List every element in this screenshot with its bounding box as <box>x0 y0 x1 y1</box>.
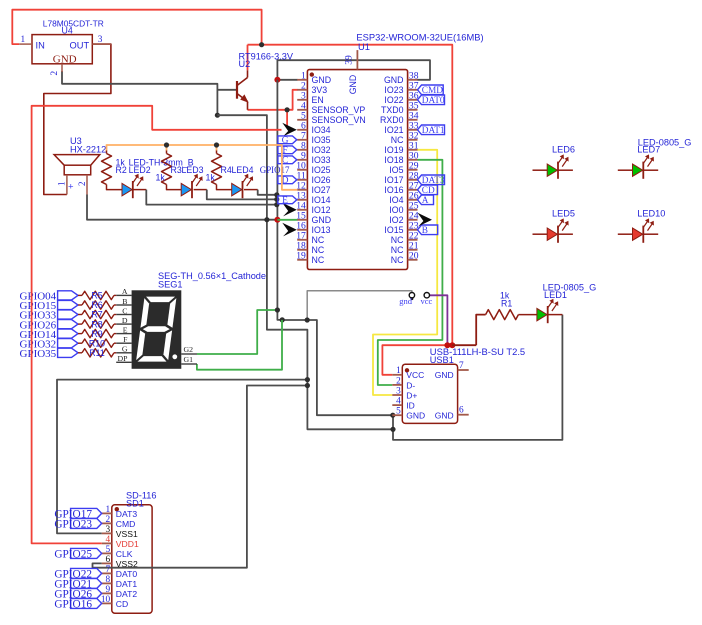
svg-text:3: 3 <box>98 35 103 45</box>
wire GND bus V1 down left side of chip <box>217 115 393 429</box>
SD1 pin 10 CD <box>102 602 112 604</box>
USB1 pin 2 D- <box>392 384 402 386</box>
SD1 pin 6 VSS2 <box>102 562 112 564</box>
net port arrow at pin 24 IO2 <box>418 213 433 227</box>
segment pin C stub <box>116 314 131 316</box>
net port arrow at pin 16 IO13 <box>282 223 297 237</box>
svg-text:SENSOR_VN: SENSOR_VN <box>312 115 366 125</box>
svg-text:SEG1: SEG1 <box>158 280 183 290</box>
SD1 pin 3 VSS1 <box>102 532 112 534</box>
SD1 pin 2 CMD <box>102 522 112 524</box>
svg-text:3V3: 3V3 <box>312 85 328 95</box>
svg-text:OUT: OUT <box>70 41 90 51</box>
svg-text:3: 3 <box>396 386 401 396</box>
svg-text:GND: GND <box>384 75 404 85</box>
resistor R11 <box>78 352 82 354</box>
ESP32 pin 7 IO35 <box>297 139 307 141</box>
resistor R2 1k <box>106 150 108 154</box>
svg-text:R7: R7 <box>91 310 102 320</box>
svg-text:R9: R9 <box>91 329 102 339</box>
ESP32 pin 33 IO21 <box>408 129 418 131</box>
net flag E at ESP32 pin 13 <box>278 196 297 204</box>
svg-text:NC: NC <box>391 135 404 145</box>
ESP32 pin 14 IO12 <box>297 209 307 211</box>
svg-text:G: G <box>122 345 128 354</box>
svg-text:C: C <box>122 306 127 315</box>
svg-text:VDD1: VDD1 <box>116 539 139 549</box>
svg-text:IO14: IO14 <box>312 195 331 205</box>
ESP32 pin 37 IO23 <box>408 89 418 91</box>
svg-text:IN: IN <box>36 41 45 51</box>
svg-text:R6: R6 <box>91 300 102 310</box>
svg-text:A: A <box>422 196 429 206</box>
svg-text:D-: D- <box>406 380 415 390</box>
USB1 pin 7 GND <box>458 369 469 371</box>
USB1 pin 4 ID <box>392 404 402 406</box>
net flag C at ESP32 pin 9 <box>278 156 297 164</box>
svg-text:5: 5 <box>106 545 111 555</box>
svg-text:F: F <box>123 335 128 344</box>
svg-text:DAT3: DAT3 <box>116 509 138 519</box>
wire U4 GND down to base and GND bus <box>62 71 217 115</box>
segment pin D stub <box>116 323 131 325</box>
svg-text:IO18: IO18 <box>384 155 403 165</box>
led LED4 LED-TH-3mm_B <box>232 183 242 195</box>
svg-text:USB1: USB1 <box>430 355 454 365</box>
svg-text:B: B <box>422 226 428 236</box>
resistor R9 <box>78 333 82 335</box>
segment pin G1 stub <box>181 363 197 365</box>
svg-text:4: 4 <box>396 397 401 407</box>
net flag B at ESP32 pin 23 <box>418 225 438 235</box>
svg-text:1k: 1k <box>156 173 166 183</box>
svg-text:GND: GND <box>348 75 358 95</box>
svg-text:GND: GND <box>406 411 425 421</box>
wire base tap <box>217 89 236 91</box>
ESP32 pin 15 GND <box>297 219 307 221</box>
ESP32 pin 21 NC <box>408 249 418 251</box>
ESP32 pin 17 NC <box>297 239 307 241</box>
ESP32 pin 4 SENSOR_VP <box>297 109 307 111</box>
svg-text:LED3: LED3 <box>182 165 204 175</box>
ESP32 pin 29 IO5 <box>408 169 418 171</box>
svg-text:E: E <box>123 325 128 334</box>
ESP32 pin 19 NC <box>297 259 307 261</box>
svg-text:IO35: IO35 <box>312 135 331 145</box>
speaker pin 1 <box>66 175 68 195</box>
ESP32 pin 20 NC <box>408 259 418 261</box>
svg-text:IO5: IO5 <box>389 165 403 175</box>
svg-text:SENSOR_VP: SENSOR_VP <box>312 105 366 115</box>
wire yellow IO19 to USB D+ <box>373 150 437 395</box>
wire VDD: SD VDD1 up and over to IO34 port <box>32 106 282 544</box>
led LED6 <box>533 169 548 171</box>
svg-text:LED10: LED10 <box>637 209 665 219</box>
svg-text:LED1: LED1 <box>544 290 567 300</box>
ESP32 pin 31 IO19 <box>408 149 418 151</box>
svg-text:1: 1 <box>20 35 25 45</box>
ESP32 pin 30 IO18 <box>408 159 418 161</box>
net flag A at ESP32 pin 26 <box>418 195 434 205</box>
svg-text:SD1: SD1 <box>126 499 144 509</box>
ESP32 pin 25 IO0 <box>408 209 418 211</box>
net flag GPIO17 at SD1 pin 1 <box>71 508 102 518</box>
net flag GPIO23 at SD1 pin 2 <box>71 518 102 528</box>
svg-text:IO33: IO33 <box>312 155 331 165</box>
svg-text:6: 6 <box>459 406 464 416</box>
USB1 pin 1 VCC <box>392 374 402 376</box>
net flag D at ESP32 pin 11 <box>278 176 297 184</box>
SD1 pin 1 DAT3 <box>102 512 112 514</box>
net flag F at ESP32 pin 8 <box>278 146 297 154</box>
ESP32 pin 36 IO22 <box>408 99 418 101</box>
svg-text:DAT0: DAT0 <box>116 569 138 579</box>
svg-text:U2: U2 <box>239 59 251 69</box>
ESP32 pin 10 IO25 <box>297 169 307 171</box>
svg-text:DAT1: DAT1 <box>422 126 445 136</box>
svg-text:R10: R10 <box>89 338 105 348</box>
wire 5V to transistor collector <box>247 45 249 71</box>
ESP32 pin 5 SENSOR_VN <box>297 119 307 121</box>
svg-text:CLK: CLK <box>116 549 133 559</box>
ESP32 pin 16 IO13 <box>297 229 307 231</box>
svg-text:IO13: IO13 <box>312 225 331 235</box>
segment pin G2 stub <box>181 353 197 355</box>
svg-text:IO0: IO0 <box>389 205 403 215</box>
led LED2 LED-TH-3mm_B <box>122 183 132 195</box>
svg-text:39: 39 <box>344 55 355 65</box>
svg-text:DP: DP <box>118 354 129 363</box>
resistor R1 1k <box>486 310 519 320</box>
U4 pin 3 stub <box>92 43 111 45</box>
svg-text:2: 2 <box>50 71 60 76</box>
segment pin F stub <box>116 342 131 344</box>
wire LED2 cathode to GND bus <box>133 189 146 191</box>
net flag DAT1 at ESP32 pin 33 <box>418 125 445 135</box>
ESP32 pin 27 IO16 <box>408 189 418 191</box>
svg-text:IO21: IO21 <box>384 125 403 135</box>
svg-text:GND: GND <box>312 75 332 85</box>
wire gnd testpoint <box>307 291 412 320</box>
svg-text:NC: NC <box>312 245 325 255</box>
svg-text:R2: R2 <box>116 165 127 175</box>
led LED7 <box>618 169 633 171</box>
U4 pin 2 stub <box>61 64 63 72</box>
svg-text:L78M05CDT-TR: L78M05CDT-TR <box>43 18 104 28</box>
ESP32 pin 26 IO4 <box>408 199 418 201</box>
ESP32 pin 32 NC <box>408 139 418 141</box>
svg-text:IO34: IO34 <box>312 125 331 135</box>
svg-text:19: 19 <box>296 250 306 261</box>
svg-text:R1: R1 <box>501 299 512 309</box>
svg-text:R4: R4 <box>221 165 232 175</box>
svg-text:HX-2212: HX-2212 <box>70 145 106 155</box>
ESP32 pin 35 TXD0 <box>408 109 418 111</box>
svg-text:D+: D+ <box>406 390 417 400</box>
SD1 pin 8 DAT1 <box>102 582 112 584</box>
SD1 pin 9 DAT2 <box>102 592 112 594</box>
svg-text:ID: ID <box>406 401 415 411</box>
svg-text:IO4: IO4 <box>389 195 403 205</box>
svg-text:IO17: IO17 <box>384 175 403 185</box>
svg-text:LED4: LED4 <box>232 165 254 175</box>
ESP32 pin 18 NC <box>297 249 307 251</box>
svg-text:7: 7 <box>106 565 111 575</box>
svg-text:IO12: IO12 <box>312 205 331 215</box>
junctions at USB VCC <box>444 342 450 348</box>
svg-text:2: 2 <box>396 376 401 386</box>
svg-text:NC: NC <box>391 245 404 255</box>
USB1 pin 3 D+ <box>392 394 402 396</box>
svg-text:DAT1: DAT1 <box>116 579 138 589</box>
USB1 pin 5 GND <box>392 414 402 416</box>
svg-text:R11: R11 <box>89 348 105 358</box>
svg-text:4: 4 <box>106 535 111 545</box>
svg-text:D: D <box>122 316 128 325</box>
resistor R10 <box>78 342 82 344</box>
net flag G at ESP32 pin 7 <box>278 136 297 144</box>
svg-text:1k: 1k <box>206 173 216 183</box>
svg-text:1: 1 <box>57 182 67 187</box>
svg-text:GPIO16: GPIO16 <box>54 599 92 611</box>
svg-text:8: 8 <box>106 575 111 585</box>
net flag GPIO25 at SD1 pin 5 <box>71 548 102 558</box>
svg-text:E: E <box>282 196 288 206</box>
ESP32 pin 38 GND <box>408 79 418 81</box>
wire ESP32 pin1 GND loop over top to pin38 <box>277 79 297 81</box>
svg-text:NC: NC <box>391 235 404 245</box>
led LED10 <box>618 233 633 235</box>
svg-text:+: + <box>68 181 74 192</box>
ESP32 pin 22 NC <box>408 239 418 241</box>
ESP32 body <box>307 70 407 270</box>
svg-text:EN: EN <box>312 95 324 105</box>
net port arrow at pin 14 IO12 <box>282 203 297 217</box>
SD1 pin 7 DAT0 <box>102 572 112 574</box>
svg-text:vcc: vcc <box>421 296 433 306</box>
ESP32 pin 24 IO2 <box>408 219 418 221</box>
svg-text:7: 7 <box>459 361 464 371</box>
svg-text:U4: U4 <box>62 25 73 35</box>
svg-text:G1: G1 <box>184 355 194 364</box>
net flag GPIO26 at SD1 pin 9 <box>71 588 102 598</box>
testpoint gnd <box>409 293 414 298</box>
svg-text:RXD0: RXD0 <box>380 115 404 125</box>
svg-text:gnd: gnd <box>399 296 413 306</box>
speaker body <box>54 155 100 166</box>
segment pin E stub <box>116 333 131 335</box>
svg-text:R5: R5 <box>91 291 102 301</box>
wire USB VCC pin1 <box>382 345 452 375</box>
USB1 pin 6 GND <box>458 414 469 416</box>
ESP32 pin 12 IO27 <box>297 189 307 191</box>
segment pin A stub <box>116 294 131 296</box>
svg-text:IO19: IO19 <box>384 145 403 155</box>
svg-text:IO15: IO15 <box>384 225 403 235</box>
resistor R3 1k <box>166 150 168 154</box>
wire green GND stub to ESP32 pin15 <box>277 219 297 221</box>
svg-text:LED2: LED2 <box>129 165 151 175</box>
svg-text:20: 20 <box>409 250 419 261</box>
svg-text:GPIO17: GPIO17 <box>260 165 290 175</box>
svg-text:NC: NC <box>391 255 404 265</box>
ESP32 pin 11 IO26 <box>297 179 307 181</box>
net flag GPIO16 at SD1 pin 10 <box>71 598 102 608</box>
svg-text:IO2: IO2 <box>389 215 403 225</box>
led LED3 LED-TH-3mm_B <box>181 183 191 195</box>
svg-text:G2: G2 <box>184 345 194 354</box>
svg-text:GND: GND <box>312 215 332 225</box>
svg-text:IO23: IO23 <box>384 85 403 95</box>
svg-text:2: 2 <box>106 515 111 525</box>
resistor R8 <box>78 323 82 325</box>
wire GND bus V2 down from pin1 <box>277 80 282 320</box>
svg-text:NC: NC <box>312 235 325 245</box>
svg-text:1: 1 <box>396 366 401 376</box>
svg-text:1: 1 <box>106 505 111 515</box>
svg-text:VCC: VCC <box>406 370 424 380</box>
ESP32 pin 23 IO15 <box>408 229 418 231</box>
wire G1 green to GND bus <box>197 320 282 370</box>
wire speaker negative to GND <box>87 195 277 220</box>
wire green IO18 to USB D- <box>378 160 443 385</box>
segment pin B stub <box>116 304 131 306</box>
svg-text:5: 5 <box>396 407 401 417</box>
wire R1 feed <box>452 344 476 346</box>
svg-text:GPIO25: GPIO25 <box>54 549 92 561</box>
ESP32 pin 6 IO34 <box>297 129 307 131</box>
speaker pin 2 <box>86 175 88 195</box>
svg-text:DAT0: DAT0 <box>422 96 445 106</box>
svg-text:CD: CD <box>116 599 128 609</box>
resistor R4 1k <box>216 150 218 154</box>
seven segment digit <box>136 297 177 362</box>
segment pin G stub <box>116 352 131 354</box>
net flag CD at ESP32 pin 27 <box>418 185 438 195</box>
wire GND horizontal y320 to USB pin5 <box>282 320 392 415</box>
resistor R7 <box>78 314 82 316</box>
svg-text:A: A <box>122 287 128 296</box>
wire LED3 cathode to GND bus <box>194 189 207 191</box>
ESP32 pin 13 IO14 <box>297 199 307 201</box>
testpoint vcc <box>424 293 429 298</box>
svg-text:ESP32-WROOM-32UE(16MB): ESP32-WROOM-32UE(16MB) <box>356 33 483 43</box>
wire GND to LED1 cathode <box>393 315 562 440</box>
svg-text:DAT2: DAT2 <box>116 589 138 599</box>
net flag GPIO22 at SD1 pin 7 <box>71 568 102 578</box>
svg-text:IO22: IO22 <box>384 95 403 105</box>
wire 3V3 emitter to ESP32 pin2 <box>248 90 298 110</box>
wire 5V horizontal rail to USB VCC vertical <box>248 45 453 346</box>
ESP32 pin 8 IO32 <box>297 149 307 151</box>
svg-text:VSS2: VSS2 <box>116 559 138 569</box>
U4 pin 1 stub <box>19 43 32 45</box>
segment pin DP stub <box>116 361 131 363</box>
ESP32 pin 9 IO33 <box>297 159 307 161</box>
wire G2 green to GND bus <box>197 310 277 354</box>
svg-text:6: 6 <box>106 555 111 565</box>
U4 body <box>32 35 92 64</box>
svg-text:U1: U1 <box>358 42 370 52</box>
ESP32 pin 39 GND top <box>356 50 358 70</box>
svg-text:IO32: IO32 <box>312 145 331 155</box>
wire orange LED supply to ESP32 pin12 IO27 <box>107 145 298 190</box>
svg-text:9: 9 <box>106 585 111 595</box>
wire 3V3 branch down to IO34 port <box>286 110 288 127</box>
net flag CMD at ESP32 pin 37 <box>418 85 444 95</box>
svg-text:TXD0: TXD0 <box>381 105 404 115</box>
junction on 5V rail <box>259 42 264 47</box>
net flag GPIO21 at SD1 pin 8 <box>71 578 102 588</box>
svg-text:IO26: IO26 <box>312 175 331 185</box>
ESP32 pin 1 GND <box>297 79 307 81</box>
net flag DAT0 at ESP32 pin 36 <box>418 95 445 105</box>
svg-text:3: 3 <box>106 525 111 535</box>
svg-text:GPIO35: GPIO35 <box>20 348 57 360</box>
svg-text:IO27: IO27 <box>312 185 331 195</box>
resistor R5 <box>78 294 82 296</box>
wire VSS2 to GND bus <box>93 386 308 568</box>
led LED5 <box>533 233 548 235</box>
wire LED4 cathode to GND bus <box>244 189 258 191</box>
svg-text:LED7: LED7 <box>637 145 660 155</box>
svg-text:CMD: CMD <box>116 519 136 529</box>
led LED1 LED-0805_G <box>537 308 547 320</box>
svg-text:IO16: IO16 <box>384 185 403 195</box>
svg-text:GND: GND <box>53 53 77 65</box>
svg-text:R8: R8 <box>91 319 102 329</box>
junction red at pin1 <box>274 77 280 83</box>
svg-text:B: B <box>122 297 127 306</box>
ESP32 pin 34 RXD0 <box>408 119 418 121</box>
svg-text:VSS1: VSS1 <box>116 529 138 539</box>
USB1 body <box>402 364 457 423</box>
svg-text:NC: NC <box>312 255 325 265</box>
ESP32 pin 2 3V3 <box>297 89 307 91</box>
resistor R6 <box>78 304 82 306</box>
svg-text:R3: R3 <box>171 165 182 175</box>
SD1 pin 5 CLK <box>102 552 112 554</box>
SD1 body <box>112 505 152 613</box>
ESP32 pin 3 EN <box>297 99 307 101</box>
svg-text:LED5: LED5 <box>552 209 575 219</box>
svg-text:GPIO23: GPIO23 <box>54 519 92 531</box>
wire 5V net: U4 IN from top rail <box>12 10 261 45</box>
junction base/GND <box>215 113 220 118</box>
svg-text:F: F <box>282 146 287 156</box>
net flag DAT3 at ESP32 pin 28 <box>418 175 445 185</box>
svg-text:IO25: IO25 <box>312 165 331 175</box>
svg-text:GND: GND <box>435 411 454 421</box>
svg-text:2: 2 <box>77 182 87 187</box>
wire U4 OUT 5V to speaker + <box>44 44 111 194</box>
wire VSS1 to GND bus <box>57 380 307 534</box>
ESP32 pin 28 IO17 <box>408 179 418 181</box>
net port arrow at pin 6 IO34 <box>282 123 297 137</box>
decimal point <box>172 354 177 359</box>
wire purple vcc testpoint <box>430 295 448 345</box>
svg-text:GND: GND <box>435 370 454 380</box>
SD1 pin 4 VDD1 <box>102 542 112 544</box>
svg-text:LED6: LED6 <box>552 145 575 155</box>
